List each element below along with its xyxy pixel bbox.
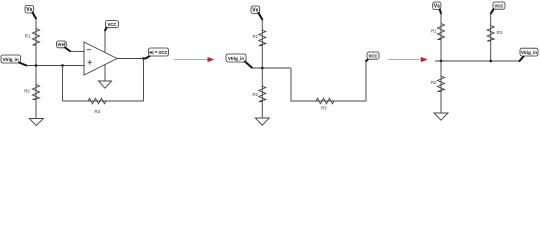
- junction R1 node (stage 3): [440, 60, 443, 63]
- ground (stage 3): [434, 113, 448, 120]
- wire rail corner down: [291, 68, 316, 101]
- resistor R1 (stage 3): [438, 24, 445, 40]
- ground (stage 1): [29, 119, 43, 126]
- node Vs label (stage 3): [433, 2, 441, 14]
- svg-text:R3: R3: [95, 109, 101, 114]
- arrow (simplification step 1): [174, 57, 214, 62]
- svg-text:VCC: VCC: [368, 54, 377, 59]
- wire rail (stage 3): [435, 60, 520, 62]
- node VCC label (op-amp supply): [105, 21, 119, 31]
- wire Vs to R1: [261, 19, 263, 30]
- wire rail to R2 (stage 2): [261, 68, 263, 86]
- resistor R1 (stage 1): [33, 29, 40, 46]
- wire feedback left vertical: [62, 66, 64, 102]
- svg-text:Vtrig_in: Vtrig_in: [228, 56, 244, 61]
- node Vref label: [57, 41, 71, 51]
- resistor R3 (stage 3): [487, 26, 494, 42]
- ground (op-amp negative supply): [99, 81, 112, 88]
- node Vtrig_in label (stage 3): [520, 48, 539, 61]
- wire rail to R2: [35, 66, 37, 85]
- svg-text:R2: R2: [431, 80, 437, 85]
- node VCC label (stage 3): [491, 2, 505, 14]
- wire R2 to ground: [35, 100, 37, 119]
- resistor R3 (stage 2): [316, 98, 334, 104]
- wire Vs to R1 (stage 3): [440, 13, 442, 24]
- wire R2 to ground (stage 2): [261, 102, 263, 119]
- wire R1 to rail (stage 3): [440, 40, 442, 62]
- svg-text:VCC: VCC: [494, 4, 503, 9]
- svg-text:R1: R1: [431, 29, 437, 34]
- wire feedback bottom right: [106, 100, 144, 102]
- svg-text:Vtrig_in: Vtrig_in: [3, 57, 19, 62]
- wire Vs to R1: [35, 18, 37, 29]
- svg-text:R1: R1: [253, 34, 259, 39]
- resistor R2 (stage 1): [33, 85, 40, 100]
- junction R3 node (stage 3): [489, 60, 492, 63]
- junction feedback tap: [61, 64, 64, 67]
- wire R3 to rail (stage 3): [490, 41, 492, 61]
- resistor R1 (stage 2): [259, 30, 266, 46]
- svg-text:R2: R2: [253, 92, 259, 97]
- wire R1 to rail: [35, 45, 37, 66]
- svg-text:R1: R1: [25, 34, 31, 39]
- wire R2 to ground (stage 3): [440, 92, 442, 114]
- svg-text:Vtrig_in: Vtrig_in: [521, 50, 537, 55]
- wire rail to R2 (stage 3): [440, 61, 442, 76]
- resistor R2 (stage 3): [438, 76, 445, 92]
- resistor R2 (stage 2): [259, 86, 266, 102]
- wire VCC to R3 (stage 3): [490, 13, 492, 26]
- node Vtrig_in label (stage 2): [226, 54, 252, 68]
- wire feedback bottom rail: [63, 100, 89, 102]
- junction at R1/R2 node: [35, 64, 38, 67]
- resistor R3 (stage 1 feedback): [88, 98, 106, 104]
- junction (stage 2 node): [261, 67, 264, 70]
- wire input rail: [27, 65, 85, 67]
- svg-text:R2: R2: [24, 89, 30, 94]
- ground (stage 2): [255, 118, 269, 125]
- junction output node: [142, 57, 145, 60]
- wire R1 to rail: [261, 46, 263, 69]
- wire VCC to op-amp top: [104, 30, 106, 53]
- svg-text:R3: R3: [321, 106, 327, 111]
- svg-text:Hi = VCC: Hi = VCC: [149, 50, 167, 55]
- op-amp U1: [84, 42, 117, 75]
- svg-text:R3: R3: [497, 30, 503, 35]
- node Vs label (stage 2): [251, 6, 262, 20]
- node VCC label (stage 2): [366, 52, 379, 61]
- node Hi = VCC label: [146, 48, 169, 59]
- svg-text:VCC: VCC: [107, 22, 116, 27]
- arrow (simplification step 2): [388, 57, 428, 62]
- wire rail (stage 2): [252, 67, 291, 69]
- wire Vref to op-amp inverting input: [70, 50, 84, 52]
- wire feedback right vertical: [143, 59, 145, 102]
- svg-text:Vref: Vref: [57, 42, 66, 47]
- wire op-amp V- pin down: [104, 64, 106, 81]
- wire op-amp output: [117, 58, 146, 60]
- node Vs label (stage 1): [25, 6, 36, 19]
- wire R3 to VCC riser: [334, 61, 366, 101]
- node Vtrig_in label (stage 1): [1, 55, 27, 66]
